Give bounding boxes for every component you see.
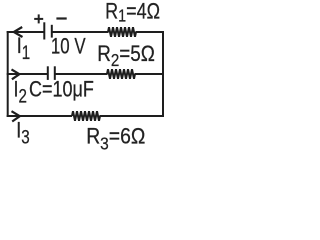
arrow I2 current (pointing right) [12,69,20,79]
label C=10uF [29,78,94,102]
capacitor C plates [48,66,55,80]
svg-text:I1: I1 [17,34,30,63]
wire bottom branch left (node to R3) [7,115,72,117]
label I1 [17,34,30,63]
resistor R2 zigzag [107,69,135,79]
wire bottom branch right (R3 to right wire) [100,115,165,117]
label I2 [14,78,27,107]
svg-text:R2=5Ω: R2=5Ω [97,42,155,71]
svg-text:C=10μF: C=10μF [29,78,94,102]
battery plus label [34,14,43,23]
wire top branch left (node A to battery) [7,31,45,33]
svg-text:10 V: 10 V [51,34,86,59]
label R1=4ohm [105,0,160,26]
wire right vertical [162,31,164,117]
svg-text:R3=6Ω: R3=6Ω [86,124,145,154]
resistor R3 zigzag [72,111,100,121]
battery B1 10V [44,22,52,39]
arrow I3 current (pointing right) [12,111,20,121]
label 10 V [51,34,86,59]
wire top branch middle (battery to R1) [52,31,109,33]
svg-text:I2: I2 [14,78,27,107]
arrow I1 current (pointing left) [14,27,23,37]
wire left vertical [7,31,9,117]
svg-text:R1=4Ω: R1=4Ω [105,0,160,26]
wire middle branch right (capacitor to R2) [55,73,108,75]
wire middle branch left (node to capacitor) [7,73,48,75]
label R3=6ohm [86,124,145,154]
battery minus label [56,17,66,19]
wire middle branch far right (R2 to right wire) [135,73,165,75]
wire top branch right (R1 to node B) [136,31,165,33]
svg-text:I3: I3 [16,119,29,148]
label R2=5ohm [97,42,155,71]
label I3 [16,119,29,148]
resistor R1 zigzag [108,27,136,37]
